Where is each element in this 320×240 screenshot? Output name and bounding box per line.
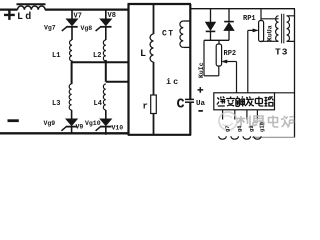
svg-text:L: L: [140, 49, 146, 60]
svg-text:g10: g10: [259, 122, 266, 132]
svg-text:L3: L3: [52, 100, 60, 108]
svg-text:RP1: RP1: [243, 15, 256, 23]
svg-text:Vg9: Vg9: [44, 120, 56, 127]
svg-text:g8: g8: [236, 125, 243, 132]
svg-text:KuUa: KuUa: [267, 25, 274, 41]
svg-text:Ua: Ua: [196, 100, 206, 108]
svg-text:Vg10: Vg10: [85, 120, 101, 127]
svg-text:V8: V8: [108, 12, 116, 20]
svg-text:g9: g9: [248, 125, 255, 132]
svg-text:r: r: [143, 102, 148, 112]
svg-text:Vg8: Vg8: [81, 25, 93, 32]
svg-text:ic: ic: [166, 77, 180, 87]
svg-text:V10: V10: [112, 125, 124, 132]
svg-text:KuIc: KuIc: [198, 62, 205, 78]
svg-text:L2: L2: [93, 52, 101, 60]
svg-text:L1: L1: [52, 52, 60, 60]
svg-text:Ld: Ld: [17, 11, 33, 23]
svg-text:V7: V7: [74, 13, 82, 21]
svg-text:L4: L4: [94, 100, 102, 108]
svg-text:g7: g7: [224, 125, 231, 132]
svg-text:Vg7: Vg7: [44, 25, 56, 32]
svg-text:RP2: RP2: [224, 50, 237, 58]
svg-text:CT: CT: [162, 30, 175, 39]
svg-text:C: C: [177, 98, 185, 113]
svg-text:T3: T3: [275, 47, 288, 58]
svg-text:V9: V9: [76, 124, 84, 131]
